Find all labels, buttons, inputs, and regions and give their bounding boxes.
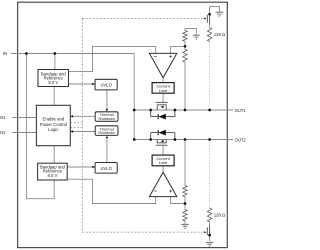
- op-amp A1 (top, pointing down): [149, 53, 176, 77]
- svg-text:8.0 V: 8.0 V: [48, 80, 58, 85]
- wire divider R2 to OUT1: [184, 62, 186, 110]
- wire UVLO1 to thermal shutdown1: [106, 90, 108, 109]
- box thermal shutdown 1: [95, 112, 118, 122]
- svg-text:EN2: EN2: [0, 130, 6, 135]
- wire EN2 pin line: [12, 132, 36, 134]
- arrowhead into TS2 bottom: [106, 136, 108, 139]
- svg-text:128 Ω: 128 Ω: [214, 212, 225, 217]
- dotted line 128ohm resistor1 to OUT1: [209, 42, 211, 111]
- dashed control line to bottom pulldown FET gate: [82, 231, 204, 233]
- op-amp A2 (bottom, pointing up): [149, 172, 176, 196]
- wire logic bottom to bandgap2 top: [53, 146, 55, 164]
- svg-text:Power Control: Power Control: [40, 122, 67, 127]
- arrowhead into logic from TS1: [70, 115, 73, 117]
- wire current limit1 to FET1 gate: [162, 93, 164, 102]
- wire OUT2 line: [134, 139, 233, 141]
- dashed control line to top pulldown FET gate: [82, 17, 204, 19]
- wire bandgap1 bottom to logic top: [53, 87, 55, 106]
- arrowhead into UVLO2: [92, 166, 95, 168]
- ground G1 (top right): [216, 12, 224, 16]
- wire OUT2 to divider R2 bottom: [184, 140, 186, 186]
- resistor 128 ohm bottom: [207, 208, 211, 222]
- dashed stub logic lower: [70, 127, 82, 129]
- svg-text:Shutdown: Shutdown: [98, 117, 115, 121]
- wire OUT1 line: [134, 109, 233, 111]
- wire IN drop to bandgap2 bottom: [26, 54, 54, 199]
- svg-text:Limit: Limit: [159, 88, 168, 93]
- wire FET top to ground jog: [210, 6, 220, 12]
- transistor FET1 (output pass FET channel1): [156, 102, 168, 110]
- wire current limit2 to FET2 gate: [162, 145, 164, 155]
- transistor pulldown FET top right: [207, 6, 209, 27]
- svg-text:OUT2: OUT2: [235, 138, 246, 143]
- wire bandgap1 to amp1 minus input: [69, 46, 156, 71]
- arrowhead dashed to FET gate bottom: [204, 231, 206, 233]
- arrowhead dashed to FET gate top: [204, 17, 206, 19]
- box thermal shutdown 2: [95, 126, 118, 136]
- box bandgap and reference 2: [38, 163, 68, 180]
- box UVLO2: [95, 163, 117, 174]
- svg-text:UVLO: UVLO: [100, 166, 112, 171]
- diode D2 (body diode channel2): [151, 130, 175, 140]
- wire node to divider R1 bottom: [184, 197, 186, 210]
- wire bandgap2 to UVLO2: [67, 166, 93, 168]
- arrowhead into TS1 top: [106, 109, 108, 112]
- box current limit 2: [152, 155, 174, 166]
- arrowhead into logic from TS2: [70, 130, 73, 132]
- arrowhead into UVLO1: [92, 83, 95, 85]
- wire IN rail vertical to output FETs: [133, 54, 135, 140]
- wire IN pin line: [11, 53, 134, 55]
- wire IN to bandgap1 top: [54, 54, 56, 70]
- node junction dots: [25, 13, 211, 237]
- ground G3 (bottom divider): [181, 224, 189, 228]
- wire amp2 plus input to divider node: [171, 197, 185, 204]
- dashed control vertical from logic: [81, 18, 83, 232]
- dotted line OUT2 to 128ohm resistor2: [209, 140, 211, 209]
- svg-text:OUT1: OUT1: [235, 108, 246, 113]
- ground G4 (bottom right): [206, 242, 214, 246]
- wire amp1 output to current limit1: [162, 78, 164, 83]
- wire divider R1 to node: [184, 41, 186, 49]
- ground G2 (top divider): [193, 35, 200, 39]
- svg-text:Limit: Limit: [159, 160, 168, 165]
- svg-text:UVLO: UVLO: [100, 82, 112, 87]
- svg-text:Enable and: Enable and: [43, 117, 65, 122]
- wire bandgap2 to amp2 minus input: [67, 179, 156, 203]
- wire amp1 plus input to divider node: [171, 46, 185, 53]
- wire thermal shutdown2 to logic: [73, 131, 95, 133]
- box enable and power control logic: [36, 105, 70, 145]
- wire current limit2 to amp2 output: [162, 166, 164, 172]
- resistor feedback divider R2 top: [183, 49, 187, 62]
- resistor feedback divider R2 bottom: [183, 185, 187, 196]
- svg-text:IN: IN: [3, 51, 7, 56]
- wire bandgap1 to UVLO1: [69, 83, 93, 85]
- box UVLO1: [95, 79, 117, 90]
- wire UVLO2 to thermal shutdown2: [106, 139, 108, 163]
- transistor pulldown FET bottom right: [207, 222, 209, 241]
- resistor 128 ohm top: [207, 28, 211, 42]
- svg-text:8.0 V: 8.0 V: [48, 173, 58, 178]
- transistor FET2 (output pass FET channel2): [156, 140, 168, 146]
- wire divider R1 bottom to ground: [184, 221, 186, 224]
- diode D1 (body diode channel1): [151, 110, 175, 120]
- svg-text:Logic: Logic: [48, 127, 59, 132]
- resistor feedback divider R1 top: [183, 31, 187, 42]
- wire thermal shutdown1 to logic: [73, 115, 95, 117]
- box bandgap and reference 1: [38, 70, 69, 87]
- outer IC boundary box: [18, 2, 228, 247]
- resistor feedback divider R1 bottom: [183, 210, 187, 221]
- box current limit 1: [152, 83, 174, 94]
- svg-text:EN1: EN1: [0, 115, 6, 120]
- wire EN1 pin line: [12, 117, 36, 119]
- wire divider top to ground jog: [185, 28, 196, 35]
- svg-text:Shutdown: Shutdown: [98, 131, 115, 135]
- svg-text:128 Ω: 128 Ω: [214, 32, 225, 37]
- dashed stub logic upper: [70, 122, 82, 124]
